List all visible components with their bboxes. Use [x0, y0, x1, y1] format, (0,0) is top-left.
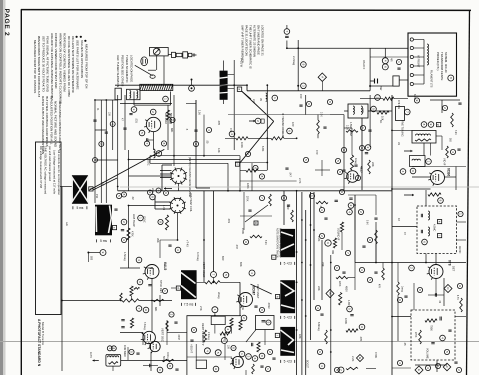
wire [392, 316, 411, 318]
wire [178, 183, 180, 190]
sound IF dashed box [417, 206, 457, 254]
svg-text:2.7K: 2.7K [298, 178, 302, 184]
wire [195, 100, 197, 188]
wire [455, 316, 466, 318]
wire [120, 267, 140, 269]
wire [128, 150, 130, 191]
wire [368, 110, 392, 112]
terminal [410, 64, 413, 67]
svg-text:12K: 12K [217, 148, 221, 153]
wire [258, 170, 267, 172]
wire [321, 240, 323, 300]
capacitor C28 [342, 272, 345, 273]
wire [370, 56, 408, 58]
svg-text:6AL5: 6AL5 [163, 262, 167, 270]
control pot box [396, 107, 405, 121]
ref circle [335, 158, 340, 163]
ref circle [116, 193, 121, 198]
junction [375, 262, 377, 264]
wire [286, 25, 288, 29]
wire [361, 118, 363, 190]
wire [240, 170, 246, 172]
wire [436, 360, 438, 372]
svg-text:VALUES ON APPLICATION: VALUES ON APPLICATION [80, 40, 84, 78]
svg-text:LM: LM [252, 99, 255, 102]
svg-text:150K: 150K [241, 228, 245, 234]
coil L12 [353, 106, 354, 114]
resistor R65 [368, 160, 371, 174]
ref circle [111, 346, 116, 351]
svg-text:VERT MULT: VERT MULT [256, 284, 260, 299]
notes box [36, 142, 62, 315]
wire [129, 175, 172, 177]
svg-text:WAVEFORMS TAKEN WITH CONTROLS: WAVEFORMS TAKEN WITH CONTROLS AT [37, 36, 41, 97]
resistor R60 [252, 364, 255, 374]
ref circle [334, 367, 339, 372]
capacitor C18 [168, 245, 171, 246]
capacitor C16b [93, 120, 96, 121]
junction [330, 262, 332, 264]
capacitor C14 [397, 68, 400, 69]
wire [128, 206, 130, 269]
resistor R64 [317, 120, 320, 134]
wire [392, 226, 417, 228]
resistor R18 [165, 215, 168, 230]
coil L6 [266, 93, 267, 101]
svg-text:SEE PARTS LIST FOR ALTERNATE: SEE PARTS LIST FOR ALTERNATE [76, 40, 80, 90]
tuner chassis hatched strip [140, 84, 173, 90]
svg-text:a-b: a-b [65, 222, 69, 226]
svg-text:FINE TUNING: FINE TUNING [401, 120, 405, 137]
ref circle [121, 237, 126, 242]
wire [242, 91, 251, 99]
wire [436, 135, 442, 137]
wire [228, 88, 235, 90]
bus junction dots [246, 84, 248, 86]
ref circle [338, 367, 344, 373]
ref circle [339, 189, 344, 194]
svg-text:100K: 100K [240, 142, 243, 148]
ref circle [456, 367, 461, 372]
svg-text:SCHEM. 400-40: SCHEM. 400-40 [444, 52, 448, 73]
resistor R8 [236, 137, 248, 140]
wire [151, 279, 153, 334]
wire [412, 176, 431, 178]
choke coil [108, 356, 119, 357]
ref circle [396, 59, 401, 64]
capacitor C11 [148, 285, 151, 286]
svg-text:8.2K: 8.2K [264, 240, 266, 245]
svg-text:450V: 450V [345, 286, 348, 292]
ref circle [382, 58, 388, 64]
svg-text:100K: 100K [344, 318, 348, 324]
ref circle [170, 117, 175, 122]
wire B+ feed [287, 47, 408, 49]
wire [392, 367, 411, 369]
resistor R54 [419, 330, 422, 344]
117V arrow [93, 359, 99, 362]
svg-text:NOTE WAVEFORM TAKEN: NOTE WAVEFORM TAKEN [276, 228, 279, 258]
wire [155, 208, 171, 210]
svg-text:6.8meg: 6.8meg [317, 322, 321, 331]
center knit wires [203, 191, 205, 282]
ref circle [421, 122, 427, 128]
ref circle [255, 118, 261, 124]
ref circle [440, 335, 446, 341]
resistor R63 [446, 146, 449, 158]
svg-text:+T-43: +T-43 [186, 240, 190, 247]
ref circle [213, 366, 219, 372]
capacitor C5 [147, 138, 148, 142]
ref circle [319, 207, 324, 212]
wire [162, 164, 172, 166]
ref circle [341, 147, 346, 152]
ref circle [382, 64, 388, 70]
ref circle [371, 106, 377, 112]
dial pointer wire [89, 149, 165, 190]
wire [384, 48, 386, 58]
resistor R59 [162, 359, 174, 361]
wire [425, 190, 427, 206]
capacitor C25 [335, 200, 338, 201]
wire [159, 240, 161, 258]
capacitor C48 [114, 209, 117, 210]
ref circle [435, 363, 440, 368]
ref circle [438, 198, 444, 204]
svg-text:ARROWS ON CONTROLS INDICATE CL: ARROWS ON CONTROLS INDICATE CLOCKWISE [58, 33, 62, 104]
junction [391, 130, 393, 132]
wire [375, 244, 377, 263]
resistor R55 [460, 298, 463, 312]
wire [330, 255, 332, 375]
svg-text:PAGE 2: PAGE 2 [3, 9, 10, 37]
resistor R23 [153, 299, 164, 301]
svg-text:4BZ7: 4BZ7 [360, 166, 364, 173]
ref circle [229, 131, 235, 137]
tag b [89, 187, 93, 191]
ref circle [337, 169, 342, 174]
wire [160, 177, 172, 179]
ref circle [231, 345, 236, 350]
ref circle [345, 250, 350, 255]
wire [145, 267, 152, 269]
terminal strip [115, 88, 121, 100]
svg-text:470K: 470K [374, 352, 378, 358]
wire [167, 105, 169, 150]
svg-text:.001: .001 [135, 118, 138, 123]
svg-text:ROTATION OF CONTROL VIEWED FRO: ROTATION OF CONTROL VIEWED FROM [63, 33, 67, 92]
ref circle [442, 105, 447, 110]
capacitor C47 [299, 105, 302, 106]
svg-text:B88: B88 [90, 256, 92, 261]
svg-text:HLT CHED. CONTROL GRID WIRES: HLT CHED. CONTROL GRID WIRES [45, 96, 49, 147]
ref circle [136, 257, 142, 263]
wire [392, 129, 412, 131]
wire [223, 61, 225, 71]
ref circle [358, 209, 363, 214]
wire [239, 282, 241, 315]
ref circle [164, 191, 169, 196]
resistor R9 [271, 137, 284, 140]
resistor R50 [428, 193, 441, 196]
capacitor C38 [448, 330, 451, 331]
net diamond C [444, 285, 452, 293]
capacitor C35 [374, 218, 377, 219]
arrow [404, 194, 414, 197]
svg-text:All controls are for normal op: All controls are for normal operation [57, 150, 61, 195]
ref circle [426, 159, 432, 165]
svg-text:DC voltage measured with VTVM: DC voltage measured with VTVM [39, 146, 43, 189]
capacitor C13 [342, 170, 345, 171]
svg-text:2.2meg: 2.2meg [207, 332, 209, 340]
capacitor C26 [349, 198, 352, 199]
capacitor C19 [190, 340, 193, 341]
capacitor C24 [136, 353, 139, 354]
svg-text:7.5 ms: 7.5 ms [184, 303, 194, 307]
svg-text:Model B Tune Co: Model B Tune Co [41, 322, 45, 346]
ref circle [93, 158, 98, 163]
ref circle [306, 101, 311, 106]
wire [148, 139, 154, 141]
wire [239, 156, 241, 191]
svg-text:B: B [328, 292, 332, 294]
wire [375, 195, 377, 215]
IF input transformer T1 [127, 89, 141, 99]
small cap block [261, 119, 264, 123]
tag h [276, 295, 280, 299]
tube socket XV2 [170, 168, 187, 185]
svg-text:560: 560 [286, 205, 290, 210]
wire [142, 332, 144, 345]
waveform caption [281, 262, 295, 266]
capacitor C9 [121, 230, 124, 231]
wire [354, 205, 356, 230]
svg-text:HEIGHT: HEIGHT [190, 344, 193, 354]
resistor R38 [166, 321, 169, 331]
ref circle [334, 265, 339, 270]
svg-text:6.8: 6.8 [101, 182, 105, 186]
resistor R37 [203, 330, 206, 342]
junction [391, 188, 393, 190]
ref circle [246, 354, 252, 360]
svg-text:A: A [320, 76, 324, 78]
wire [394, 98, 408, 100]
line choke box [106, 354, 121, 366]
border frame [20, 9, 22, 375]
bias pot box [196, 360, 206, 368]
wire [196, 187, 210, 189]
svg-text:100: 100 [291, 122, 295, 127]
wire [430, 143, 432, 156]
svg-text:UHF TUNER SHOWN IN: UHF TUNER SHOWN IN [116, 55, 120, 87]
wire [197, 281, 205, 283]
wire [153, 132, 155, 150]
waveform caption [281, 360, 295, 364]
ref circle [267, 349, 272, 354]
tag i [275, 333, 279, 337]
resistor R35 [120, 293, 122, 300]
svg-text:33K: 33K [321, 262, 325, 267]
svg-text:FOCUS: FOCUS [166, 352, 169, 361]
wire [248, 137, 271, 139]
tag a [237, 87, 241, 91]
ref circle [367, 237, 372, 242]
resistor R66 [346, 130, 358, 133]
power transformer box [408, 33, 457, 96]
wire [112, 366, 114, 371]
wire [213, 278, 215, 283]
svg-text:F: F [445, 366, 449, 368]
wire [245, 370, 247, 375]
waveform photo W3 [181, 270, 197, 299]
svg-text:1.5K: 1.5K [198, 110, 201, 115]
interstage bus verticals [296, 191, 298, 375]
ref circle [319, 363, 325, 369]
resistor R45 [333, 238, 336, 248]
svg-text:120K: 120K [246, 183, 249, 189]
ref circle [163, 96, 169, 102]
wire [343, 115, 345, 190]
svg-text:2.2K: 2.2K [346, 125, 349, 130]
tag f [235, 162, 239, 166]
ref circle [400, 169, 406, 175]
waveform photo W4 [280, 229, 295, 257]
ref circle [365, 145, 371, 151]
wire [399, 79, 408, 81]
ref circle [143, 307, 149, 313]
resistor R40 [239, 320, 242, 330]
feed to vert output [283, 191, 285, 225]
svg-text:MEASURED FROM TOP OF CHASSIS: MEASURED FROM TOP OF CHASSIS [33, 40, 37, 93]
ref circle [375, 95, 381, 101]
wire [160, 173, 171, 175]
svg-text:1.5meg: 1.5meg [123, 252, 127, 261]
wire [149, 156, 151, 164]
svg-text:OR LESS NOT SHOWN ON SCHEMATIC: OR LESS NOT SHOWN ON SCHEMATIC [71, 36, 75, 94]
wire [264, 330, 266, 346]
wire [160, 239, 178, 241]
wire [284, 137, 297, 139]
wire [231, 327, 233, 334]
ref circle [417, 287, 422, 292]
ref circle [225, 326, 231, 332]
terminal [410, 55, 413, 58]
ref circle [259, 353, 265, 359]
resistor R15 [350, 155, 353, 170]
ref circle [150, 109, 156, 115]
ref circle [122, 192, 127, 197]
wire [369, 95, 371, 147]
ref circle [303, 157, 308, 162]
ref circle [317, 349, 322, 354]
svg-text:PAGE 31 LOCATED ON: PAGE 31 LOCATED ON [245, 25, 249, 56]
ref circle [448, 75, 454, 81]
wire [321, 160, 323, 176]
svg-text:ION TRAP COIL: ION TRAP COIL [189, 193, 193, 212]
svg-text:SYNC: SYNC [143, 216, 146, 223]
svg-text:470: 470 [315, 150, 319, 155]
wire [177, 213, 179, 240]
capacitor C41 [454, 362, 457, 363]
terminal [410, 38, 413, 41]
svg-text:5.6K: 5.6K [366, 220, 368, 225]
resistor R31 [220, 332, 230, 335]
wire [315, 169, 330, 171]
IF coupling diagonal wires [242, 91, 274, 121]
wire [228, 74, 235, 76]
ref circle [284, 29, 290, 35]
svg-text:82K: 82K [239, 262, 243, 267]
ref circle [272, 95, 278, 101]
svg-text:.001: .001 [227, 218, 231, 224]
wire [321, 81, 323, 90]
resistor R11 [377, 111, 389, 114]
capacitor C31 [421, 230, 422, 233]
wire [240, 215, 272, 217]
svg-text:5 +23: 5 +23 [284, 316, 292, 320]
net diamond A [318, 73, 326, 81]
capacitor C2 [285, 36, 289, 37]
svg-text:AIRLOOP OR EXTERNAL ANTENNA SU: AIRLOOP OR EXTERNAL ANTENNA SUBSTITU [50, 33, 54, 100]
capacitor C42 [175, 369, 178, 370]
wire [445, 176, 457, 178]
arrow [404, 150, 413, 153]
long bus wire [391, 95, 393, 375]
resistor R52 [425, 319, 437, 322]
ref circle [319, 233, 324, 238]
resistor R14 [246, 169, 258, 172]
resistor R61 [346, 367, 358, 369]
svg-text:47K: 47K [229, 128, 233, 133]
ref circle [131, 107, 137, 113]
svg-text:LOCATED ON PAGE: LOCATED ON PAGE [130, 55, 134, 82]
ref circle [144, 141, 149, 146]
capacitor C20 [365, 153, 368, 154]
wire [203, 115, 205, 156]
capacitor C22 [262, 321, 266, 322]
svg-text:5 +23: 5 +23 [284, 360, 292, 364]
height pot box [211, 316, 225, 324]
sound takeoff transformer [348, 104, 368, 118]
ion trap extra circles [148, 190, 153, 195]
tag m [254, 221, 258, 225]
tag l [438, 234, 442, 238]
wire [428, 294, 444, 296]
junction [266, 162, 268, 164]
svg-text:2.2K: 2.2K [351, 356, 355, 362]
wire [95, 159, 118, 161]
ref circle [458, 211, 463, 216]
svg-text:PIX: PIX [95, 194, 99, 198]
svg-text:POWER (P.S.): POWER (P.S.) [436, 52, 440, 70]
ref circle [359, 145, 364, 150]
ref circle [107, 346, 112, 351]
wire [167, 331, 187, 333]
tube V6 6CM7b [148, 341, 161, 353]
junction [203, 239, 205, 241]
waveform photo W2 [95, 205, 112, 236]
svg-text:DC COIL RESISTANCE VALUES OF 1: DC COIL RESISTANCE VALUES OF 1 OHM [67, 36, 71, 97]
capacitor C29 [374, 272, 377, 273]
fuse block [393, 76, 399, 86]
svg-text:E: E [417, 369, 421, 371]
socket XV2 entry wires [160, 170, 172, 172]
wire [195, 344, 197, 360]
wire [60, 186, 72, 188]
wire [220, 281, 240, 283]
capacitor C40 [324, 218, 327, 219]
wire [415, 364, 447, 366]
